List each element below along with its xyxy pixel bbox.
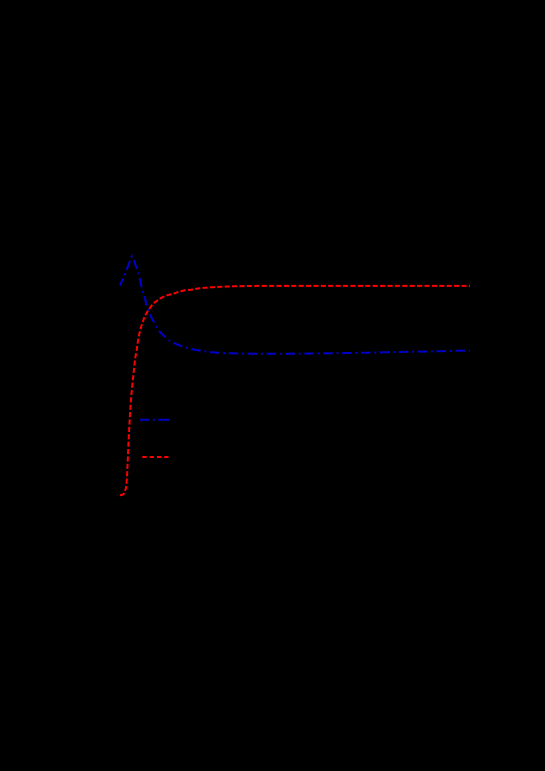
legend key: red dashed sample (142, 456, 168, 458)
curve series 1 (blue dash-dot line) (120, 256, 470, 354)
curve series 2 (red dashed line) (120, 286, 470, 495)
legend key: blue dash-dot sample (140, 419, 169, 421)
